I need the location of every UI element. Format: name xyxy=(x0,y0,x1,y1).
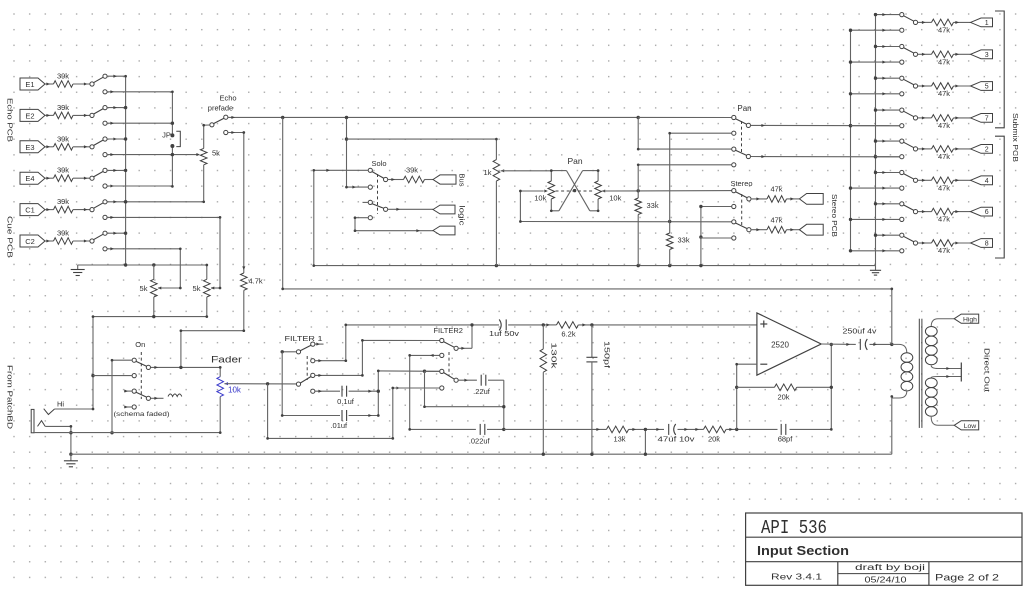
svg-text:47k: 47k xyxy=(770,185,782,194)
svg-text:1k: 1k xyxy=(484,168,492,177)
svg-text:39k: 39k xyxy=(57,229,69,238)
svg-text:Rev 3.4.1: Rev 3.4.1 xyxy=(771,573,823,582)
svg-text:JP: JP xyxy=(162,131,171,140)
svg-text:logic: logic xyxy=(458,206,467,226)
svg-text:E3: E3 xyxy=(25,143,34,152)
svg-text:13k: 13k xyxy=(613,435,625,444)
svg-text:Direct Out: Direct Out xyxy=(983,348,992,393)
svg-text:05/24/10: 05/24/10 xyxy=(865,576,908,585)
svg-text:2520: 2520 xyxy=(771,341,789,350)
svg-text:Echo PCB: Echo PCB xyxy=(6,98,15,142)
svg-text:39k: 39k xyxy=(57,103,69,112)
svg-text:Echo: Echo xyxy=(219,94,236,103)
svg-text:150pf: 150pf xyxy=(603,341,612,368)
svg-text:47k: 47k xyxy=(938,183,950,192)
svg-text:Submix PCB: Submix PCB xyxy=(1011,113,1020,162)
svg-text:.22uf: .22uf xyxy=(473,387,491,396)
svg-text:47k: 47k xyxy=(938,246,950,255)
svg-text:1: 1 xyxy=(985,20,989,27)
svg-text:Stereo PCB: Stereo PCB xyxy=(830,194,839,237)
svg-text:C2: C2 xyxy=(25,237,35,246)
svg-text:68pf: 68pf xyxy=(778,435,794,444)
svg-text:4.7k: 4.7k xyxy=(249,277,263,286)
svg-text:Cue PCB: Cue PCB xyxy=(6,216,15,258)
svg-text:250uf 4v: 250uf 4v xyxy=(843,327,877,336)
svg-text:33k: 33k xyxy=(647,201,659,210)
svg-text:7: 7 xyxy=(985,116,989,123)
svg-text:From PatchBD: From PatchBD xyxy=(6,365,15,430)
svg-text:33k: 33k xyxy=(678,236,690,245)
svg-text:39k: 39k xyxy=(57,197,69,206)
svg-text:47k: 47k xyxy=(938,152,950,161)
svg-text:5k: 5k xyxy=(140,284,148,293)
svg-text:Pan: Pan xyxy=(737,104,751,113)
svg-text:FILTER2: FILTER2 xyxy=(433,326,462,335)
svg-text:Low: Low xyxy=(964,423,977,430)
svg-text:(schema faded): (schema faded) xyxy=(114,411,170,418)
svg-text:39k: 39k xyxy=(57,134,69,143)
svg-text:draft by boji: draft by boji xyxy=(855,563,925,572)
svg-text:prefade: prefade xyxy=(208,103,233,112)
svg-text:5k: 5k xyxy=(193,284,201,293)
svg-text:Pan: Pan xyxy=(567,156,582,166)
svg-text:Stereo: Stereo xyxy=(730,179,752,188)
svg-text:On: On xyxy=(135,340,145,349)
svg-text:6.2k: 6.2k xyxy=(561,330,575,339)
svg-text:47k: 47k xyxy=(938,89,950,98)
svg-text:6: 6 xyxy=(985,209,989,216)
svg-text:FILTER 1: FILTER 1 xyxy=(285,334,323,343)
svg-text:130k: 130k xyxy=(550,343,559,370)
svg-text:0.1uf: 0.1uf xyxy=(337,397,355,406)
svg-text:Bus: Bus xyxy=(458,174,467,187)
svg-text:3: 3 xyxy=(985,52,989,59)
svg-text:API 536: API 536 xyxy=(761,517,827,539)
svg-text:39k: 39k xyxy=(57,72,69,81)
svg-text:47k: 47k xyxy=(938,121,950,130)
svg-text:47k: 47k xyxy=(938,25,950,34)
svg-text:4: 4 xyxy=(985,178,989,185)
svg-text:2: 2 xyxy=(985,147,989,154)
svg-text:5: 5 xyxy=(985,84,989,91)
svg-text:.01uf: .01uf xyxy=(330,421,348,430)
svg-text:20k: 20k xyxy=(708,435,720,444)
svg-text:Fader: Fader xyxy=(211,355,242,365)
svg-text:Input Section: Input Section xyxy=(757,543,849,558)
svg-text:39k: 39k xyxy=(406,165,418,174)
svg-text:1uf 50v: 1uf 50v xyxy=(489,329,519,338)
svg-text:10k: 10k xyxy=(228,386,242,395)
svg-text:Hi: Hi xyxy=(57,400,64,409)
svg-text:47uf 10v: 47uf 10v xyxy=(658,435,695,444)
svg-text:47k: 47k xyxy=(938,215,950,224)
svg-text:47k: 47k xyxy=(770,215,782,224)
svg-text:Page 2 of 2: Page 2 of 2 xyxy=(935,573,999,584)
svg-text:C1: C1 xyxy=(25,206,35,215)
svg-text:E1: E1 xyxy=(25,80,34,89)
svg-text:20k: 20k xyxy=(777,393,789,402)
svg-text:Solo: Solo xyxy=(371,159,386,168)
svg-text:8: 8 xyxy=(985,241,989,248)
svg-text:.022uf: .022uf xyxy=(469,437,491,446)
svg-text:10k: 10k xyxy=(534,194,546,203)
svg-text:High: High xyxy=(963,316,977,323)
svg-text:39k: 39k xyxy=(57,166,69,175)
svg-text:10k: 10k xyxy=(609,194,621,203)
svg-text:47k: 47k xyxy=(938,57,950,66)
svg-text:5k: 5k xyxy=(212,149,220,158)
svg-text:E4: E4 xyxy=(25,174,34,183)
svg-text:E2: E2 xyxy=(25,111,34,120)
